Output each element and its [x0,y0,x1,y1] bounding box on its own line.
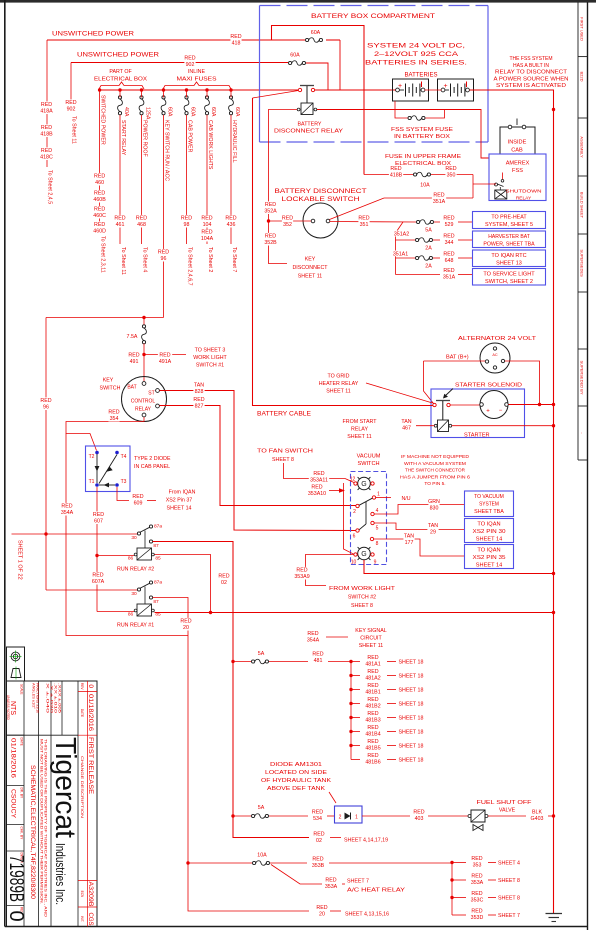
svg-text:0: 0 [5,910,27,921]
wire coil to x553 [452,425,554,427]
svg-text:9: 9 [374,560,377,566]
svg-text:ALTERNATOR 24 VOLT: ALTERNATOR 24 VOLT [458,336,537,342]
fuse 5A diode line [233,815,251,817]
svg-text:RED: RED [471,874,482,880]
battery2 minus tick [466,82,468,88]
svg-text:KEY SWITCH RUN / ACC: KEY SWITCH RUN / ACC [163,120,169,181]
svg-text:SHEET 14: SHEET 14 [167,506,192,512]
node dot RED 491 [142,353,145,356]
label RED 351A service [442,267,456,280]
svg-text:2A: 2A [425,246,432,252]
svg-text:461: 461 [116,222,125,228]
svg-text:+: + [398,83,402,90]
svg-text:CAB: CAB [511,148,523,154]
svg-text:HYDRAULIC FILL: HYDRAULIC FILL [231,120,237,163]
svg-text:KEY SIGNAL: KEY SIGNAL [355,628,386,634]
label RED 20 bottom [316,904,327,917]
svg-text:RED: RED [367,669,378,675]
sidebar column [577,2,579,460]
svg-text:8: 8 [376,541,379,547]
svg-text:−: − [499,408,503,414]
svg-text:96: 96 [43,404,49,410]
pointer to solenoid [445,389,454,397]
svg-text:85: 85 [155,556,161,562]
svg-text:481B5: 481B5 [365,745,380,751]
ref box TO IQAN RTC [473,250,546,267]
svg-text:SHEET 11: SHEET 11 [326,389,351,395]
svg-text:CGS: CGS [87,913,94,926]
svg-text:SHEET 18: SHEET 18 [399,716,424,722]
svg-text:TO SERVICE LIGHT: TO SERVICE LIGHT [483,272,535,278]
svg-text:TAN: TAN [404,534,414,540]
svg-text:To Sheet 11: To Sheet 11 [120,247,126,275]
svg-text:RED: RED [180,619,191,625]
svg-text:20: 20 [319,911,325,917]
svg-text:6: 6 [353,534,356,540]
wire alternator to starter [505,361,540,405]
svg-text:SHEET 11: SHEET 11 [347,434,372,440]
svg-text:351A: 351A [433,199,446,205]
ground symbol [546,913,563,915]
svg-text:DATE: DATE [80,709,84,717]
svg-text:344: 344 [445,240,454,246]
svg-text:HEATER RELAY: HEATER RELAY [319,381,359,387]
svg-text:DR. BY: DR. BY [20,788,24,800]
svg-text:02: 02 [221,580,227,586]
svg-text:THE FSS SYSTEM: THE FSS SYSTEM [509,56,552,62]
wire to run relay 1 pin 30 [46,589,138,591]
svg-text:SUPERSEDED BY: SUPERSEDED BY [580,360,585,394]
svg-text:86: 86 [128,612,134,618]
svg-text:468: 468 [137,222,146,228]
svg-text:104A: 104A [201,236,214,242]
label RED 353A11 [309,470,329,483]
branch RED 481B1 [349,688,352,691]
main bus y=612.5 [155,612,554,614]
svg-text:RED: RED [40,398,51,404]
svg-text:FROM WORK LIGHT: FROM WORK LIGHT [329,586,396,592]
node dot coil bus [552,424,555,427]
svg-text:BAT (B+): BAT (B+) [446,355,469,361]
svg-text:01/18/2016: 01/18/2016 [87,694,94,732]
svg-text:RELAY TO DISCONNECT: RELAY TO DISCONNECT [495,70,567,76]
fuse 7.5A [143,318,145,325]
svg-text:UNSWITCHED POWER: UNSWITCHED POWER [52,32,135,38]
svg-text:RED: RED [218,574,229,580]
label RED 403 [413,809,424,822]
label RED 353A10 [307,484,327,497]
svg-text:+: + [486,409,490,415]
svg-text:5: 5 [376,526,379,532]
wire RED 607 vertical x97 [96,487,98,612]
svg-text:STARTER SOLENOID: STARTER SOLENOID [455,383,522,389]
label RED 352B [263,233,277,246]
svg-text:RED: RED [312,857,323,863]
pin 1 [372,496,375,499]
svg-text:ECN: ECN [80,891,84,898]
branch RED 481B5 [349,744,352,747]
brace part-of-electrical-box [99,82,144,89]
svg-text:RED: RED [445,166,456,172]
wire RED 350 stub into relay [502,173,504,180]
page frame bottom border [5,926,588,928]
svg-text:1: 1 [355,815,358,821]
fuse column START RELAY [118,96,121,99]
wire RED 352 [269,220,312,222]
svg-text:60A: 60A [290,53,300,59]
wire RED 350 [431,174,473,176]
svg-text:AMEREX: AMEREX [506,161,530,167]
fuse 10A ac heat [253,861,256,864]
svg-text:GRN: GRN [428,499,440,505]
relay blade to battery cable [253,91,299,99]
svg-text:LOCKABLE SWITCH: LOCKABLE SWITCH [282,197,360,203]
svg-text:FIRST RELEASE: FIRST RELEASE [87,737,94,794]
svg-text:SWITCH, SHEET 2: SWITCH, SHEET 2 [485,279,533,285]
label RED 02 [218,573,229,586]
relay terminal left [298,88,301,91]
label TAN 467 [401,418,412,431]
svg-text:ELECTRICAL BOX: ELECTRICAL BOX [395,161,452,167]
svg-text:RED: RED [193,397,204,403]
svg-text:VALVE: VALVE [499,808,516,814]
svg-text:SHEET 18: SHEET 18 [399,744,424,750]
node dot x97 y555 [95,554,98,557]
svg-text:TO SHEET 3: TO SHEET 3 [195,348,226,354]
svg-text:WORK LIGHT: WORK LIGHT [193,355,227,361]
svg-text:DISCONNECT: DISCONNECT [292,265,328,271]
op: key switch control relay circle [122,377,167,422]
vacuum switch dashed box [351,472,387,565]
svg-text:BATTERY BOX COMPARTMENT: BATTERY BOX COMPARTMENT [311,13,435,20]
pin 2 [356,504,359,507]
svg-text:SHEET 14: SHEET 14 [476,563,503,569]
wire RED 418A vertical [46,40,48,167]
node dot [142,316,145,319]
svg-text:RED: RED [265,202,276,208]
label RED 02 sheet ref [313,831,324,844]
shutdown relay [495,183,498,186]
branch RED 481A1 [351,661,360,663]
svg-text:SYSTEM 24 VOLT DC,: SYSTEM 24 VOLT DC, [367,43,465,50]
wire TAN 177 [374,539,465,556]
svg-text:CSOUCY: CSOUCY [10,789,17,819]
svg-text:From IQAN: From IQAN [169,490,196,496]
svg-text:SCALE: SCALE [20,684,24,694]
wire RED 827 [160,406,357,506]
svg-text:60A: 60A [234,107,240,117]
svg-text:G: G [361,551,366,558]
svg-text:481B3: 481B3 [365,717,380,723]
fuse 2A iqan [396,257,416,259]
label RED 491A [158,352,172,365]
svg-text:A POWER SOURCE WHEN: A POWER SOURCE WHEN [494,76,569,82]
label RED 534 [312,809,323,822]
svg-text:WITH A VACUUM SYSTEM: WITH A VACUUM SYSTEM [404,461,466,467]
svg-text:TO GRID: TO GRID [328,374,350,380]
svg-text:418B: 418B [390,172,403,178]
wire TAN 828 [160,391,357,531]
vacuum switch blade [359,498,372,505]
svg-text:POWER, SHEET TBA: POWER, SHEET TBA [483,242,535,248]
wire relay1 87 = RED 20 [153,598,310,912]
relay run relay 1 [137,588,140,591]
terminal 9 [371,553,374,556]
svg-text:40A: 40A [123,107,129,117]
svg-text:THE SWITCH CONNECTOR: THE SWITCH CONNECTOR [405,468,466,474]
wire RED 354 to diode T2 [66,417,144,451]
svg-text:SWITCH #1: SWITCH #1 [196,363,224,369]
wire RED 902 horizontal [71,62,288,64]
coil right wire to AMEREX [317,110,489,159]
svg-text:RUN RELAY #1: RUN RELAY #1 [117,623,154,629]
svg-text:RED: RED [201,230,212,236]
svg-text:SCHEMATIC,ELECTRICAL,T4F,8220/: SCHEMATIC,ELECTRICAL,T4F,8220/8300 [29,765,35,900]
label RED 529 [443,215,454,228]
svg-text:10A: 10A [420,183,430,189]
main vertical bus x=553.5 [553,110,555,914]
svg-text:TO IQAN: TO IQAN [477,548,500,554]
terminal 10 [354,553,357,556]
label RED 607 [93,511,104,524]
svg-text:30: 30 [131,591,137,597]
svg-text:SHEET 18: SHEET 18 [399,660,424,666]
svg-text:RED: RED [265,234,276,240]
svg-text:RED: RED [316,905,327,911]
svg-text:G: G [361,481,366,488]
svg-text:177: 177 [405,540,414,546]
fuse column HYDRAULIC FILL [229,96,232,99]
fuse column KEY SWITCH RUN / ACC [162,96,165,99]
svg-text:RED: RED [433,193,444,199]
svg-text:60A: 60A [190,107,196,117]
node dot x46 y534 [44,532,47,535]
svg-text:RED: RED [312,652,323,658]
svg-text:481A2: 481A2 [365,675,380,681]
svg-text:RUN RELAY #2: RUN RELAY #2 [117,567,154,573]
svg-text:RED: RED [296,568,307,574]
node dot starter bus [552,403,555,406]
stub RED 354A [326,636,348,638]
svg-text:CONTROL: CONTROL [131,399,156,405]
svg-text:TAN: TAN [428,523,438,529]
svg-text:20: 20 [183,625,189,631]
svg-text:To Sheet 2: To Sheet 2 [207,247,213,272]
node dot RED 352 [267,219,270,222]
label RED 353B [311,856,325,869]
svg-text:354A: 354A [61,510,74,516]
fuse column POWER ROOF [140,96,143,99]
svg-text:SHEET 14: SHEET 14 [476,537,503,543]
wire BLK G403 [488,815,526,817]
svg-text:534: 534 [313,816,322,822]
svg-text:CIRCUIT: CIRCUIT [360,636,382,642]
svg-text:351A: 351A [443,274,456,280]
svg-text:RED: RED [136,216,147,222]
svg-text:TO PIN 5.: TO PIN 5. [424,481,445,487]
fuse 5A pre-heat [417,220,420,223]
svg-text:RED: RED [94,174,105,180]
svg-text:+: + [443,83,447,90]
svg-text:352: 352 [283,222,292,228]
svg-text:RED: RED [181,216,192,222]
ref box TO PRE-HEAT [473,212,546,229]
node dot bus-85 [209,611,212,614]
svg-text:5A: 5A [425,228,432,234]
fuse column CAB WORK LIGHTS [205,96,208,99]
svg-text:RED: RED [158,250,169,256]
terminal BAT [142,382,146,386]
solenoid coil [438,420,449,432]
svg-text:481B4: 481B4 [365,731,380,737]
svg-text:SWITCH: SWITCH [357,461,379,467]
svg-text:RED: RED [184,56,195,62]
svg-text:N/U: N/U [401,496,410,502]
label GRN 830 [428,498,439,511]
svg-text:481A1: 481A1 [365,661,380,667]
svg-text:RED: RED [312,810,323,816]
fuse 60A #1 [306,38,309,41]
svg-text:B22D: B22D [580,71,585,81]
svg-text:RED: RED [93,512,104,518]
wire motor to x553 [509,404,554,406]
wire RED 351A into amerex [472,175,474,199]
wire RED 353A11 [298,478,345,480]
svg-text:SHEET 18: SHEET 18 [399,758,424,764]
svg-text:RED: RED [108,410,119,416]
svg-text:LOCATED ON SIDE: LOCATED ON SIDE [265,770,328,776]
svg-text:HARVESTER BAT: HARVESTER BAT [488,234,530,240]
svg-text:RED: RED [61,504,72,510]
svg-text:86: 86 [128,556,134,562]
svg-text:87: 87 [153,599,159,605]
svg-text:SWITCH: SWITCH [100,386,121,392]
svg-text:607A: 607A [92,579,105,585]
svg-text:609: 609 [134,500,143,506]
svg-text:5A: 5A [258,651,265,657]
label RED 902 [184,55,195,68]
label RED 353A9 [293,567,310,580]
svg-text:SHEET 8: SHEET 8 [498,878,520,884]
pin 4 [371,512,374,515]
svg-text:351: 351 [360,222,369,228]
svg-text:ANGLES ±1/2°: ANGLES ±1/2° [32,683,36,710]
svg-text:SHEET 18: SHEET 18 [399,674,424,680]
label RED 418C [39,147,53,160]
node dot alternator junction [538,403,541,406]
svg-text:418A: 418A [40,108,53,114]
branch RED 481B3 [349,716,352,719]
svg-text:RELAY: RELAY [516,196,532,202]
svg-text:353A10: 353A10 [308,491,326,497]
fuse 10A upper frame [414,173,417,176]
svg-text:7.5A: 7.5A [127,334,138,340]
svg-text:SHEET 7: SHEET 7 [498,913,520,919]
svg-text:SHEET 8: SHEET 8 [351,603,373,609]
svg-text:ST: ST [148,391,154,397]
diode module TYPE 2 DIODE [86,446,131,492]
third angle projection symbol [7,647,25,681]
svg-text:460: 460 [95,180,104,186]
svg-text:IN CAB PANEL: IN CAB PANEL [134,464,170,470]
svg-text:G403: G403 [531,816,544,822]
label RED 418B [389,165,403,178]
svg-text:418B: 418B [40,131,53,137]
svg-text:418C: 418C [40,154,53,160]
svg-text:RED: RED [367,697,378,703]
svg-text:Tigercat: Tigercat [49,737,81,838]
ref box TO SERVICE LIGHT [473,269,546,286]
svg-text:460D: 460D [93,228,106,234]
branch RED 481A2 [349,674,352,677]
wire to upper frame fuse [272,26,365,175]
svg-text:30: 30 [131,535,137,541]
svg-text:SHEET 18: SHEET 18 [399,688,424,694]
svg-text:607: 607 [94,518,103,524]
fuse 2A harvester [396,239,416,241]
node dot 5A-534 [231,814,234,817]
svg-text:RED: RED [41,148,52,154]
svg-text:60A: 60A [311,30,321,36]
wire RED 351A to service light [396,274,441,276]
wire RED 96 vertical x=46 [45,318,47,591]
wire bus to battery 1 [315,89,396,91]
svg-text:351A2: 351A2 [394,232,409,238]
starter motor [480,391,508,419]
diode AM1301 box [335,806,363,823]
inside cab box [500,127,535,154]
svg-text:98: 98 [184,222,190,228]
wire relay1 86 [97,611,134,613]
svg-text:TAN: TAN [401,419,411,425]
svg-text:DISCONNECT RELAY: DISCONNECT RELAY [274,129,344,135]
wire to run relay 2 pin 30 [12,533,139,535]
svg-text:TO PRE-HEAT: TO PRE-HEAT [491,215,527,221]
svg-text:SUPERSEDES: SUPERSEDES [580,249,585,277]
svg-text:RED: RED [311,485,322,491]
svg-text:KEY: KEY [305,257,316,263]
wire 60A#2 to bus [306,63,328,90]
branch RED 481B2 [349,702,352,705]
wire TAN 467 [416,425,434,427]
svg-text:SHEET 8: SHEET 8 [498,896,520,902]
svg-text:RED: RED [94,222,105,228]
wire RED 609 from T3 [117,487,129,501]
svg-text:POWER ROOF: POWER ROOF [141,120,147,158]
fuse chain jog [396,222,404,275]
svg-text:RED: RED [313,471,324,477]
svg-text:353A9: 353A9 [294,574,309,580]
label RED 352A [263,201,277,214]
svg-text:SHUTDOWN: SHUTDOWN [506,189,543,195]
svg-text:RED: RED [358,216,369,222]
wire RED 354A vertical x66 [66,434,188,636]
svg-text:SHEET 13: SHEET 13 [496,261,522,267]
RED 481 vertical [350,662,352,760]
svg-text:60A: 60A [210,107,216,117]
svg-text:2: 2 [353,509,356,515]
label RED 354A [60,503,74,516]
label TAN 177 [403,533,414,546]
svg-text:PART OF: PART OF [109,69,132,75]
svg-text:467: 467 [402,425,411,431]
svg-text:HAS A JUMPER FROM PIN 6: HAS A JUMPER FROM PIN 6 [400,474,470,480]
svg-text:STARTER: STARTER [464,433,490,439]
svg-text:RED: RED [367,725,378,731]
battery 1 [393,79,429,101]
svg-text:To Sheet 11: To Sheet 11 [71,116,77,144]
svg-text:902: 902 [186,62,195,68]
